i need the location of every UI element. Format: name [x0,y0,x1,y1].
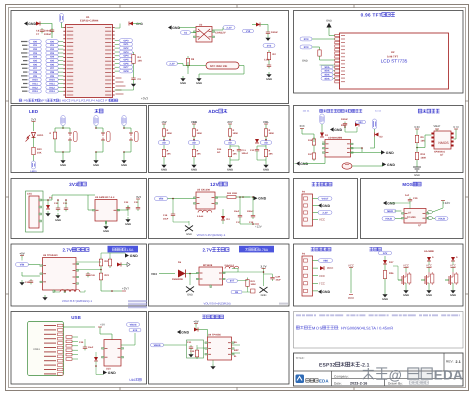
svg-text:: P6(: : P6( [22,99,28,103]
svg-text:-2.1: -2.1 [360,363,369,369]
svg-text:VOLB: VOLB [385,217,392,220]
svg-text:GND: GND [187,294,193,297]
svg-text:EDA: EDA [434,368,463,383]
svg-text:1N5819W: 1N5819W [172,278,184,281]
svg-text:GND: GND [266,78,272,81]
svg-text:GA-NMB: GA-NMB [424,250,434,253]
svg-text::: : [338,325,339,330]
svg-text:10K: 10K [269,153,274,156]
svg-text:0.78A: 0.78A [259,248,269,252]
svg-text:LED1: LED1 [30,170,37,173]
svg-text:GND: GND [180,82,186,85]
svg-text:GND: GND [196,82,202,85]
svg-text:GP8: GP8 [123,70,129,73]
svg-text:10uF: 10uF [276,279,282,282]
svg-text:3.7V: 3.7V [260,264,266,268]
svg-text:ADC: ADC [208,109,219,114]
svg-text:IO8: IO8 [50,71,55,74]
svg-text:10uF: 10uF [234,210,240,213]
svg-text:IO4: IO4 [33,56,38,59]
svg-text:IO1: IO1 [50,44,55,47]
svg-text:3.3V: 3.3V [169,62,175,65]
svg-text:GND: GND [191,169,197,172]
svg-text:R21: R21 [105,274,110,277]
svg-text:2V7: 2V7 [227,120,233,124]
svg-text:IO0: IO0 [50,40,55,43]
svg-text:100nF: 100nF [271,31,278,34]
svg-text:+5V: +5V [19,252,24,256]
svg-text:B-: B- [234,355,237,358]
svg-text:GND: GND [261,294,267,297]
svg-text:10K: 10K [197,153,202,156]
svg-text:GND: GND [181,331,189,335]
svg-text:GND: GND [60,164,66,167]
svg-text:+12V: +12V [255,225,262,229]
svg-text:GND: GND [108,371,116,375]
svg-text:VD3: VD3 [151,272,157,276]
svg-text:GP3: GP3 [123,51,129,54]
svg-text:1.5A: 1.5A [126,248,134,252]
svg-text:GND: GND [326,20,332,23]
svg-text:VBB: VBB [191,120,197,124]
svg-text:10K: 10K [138,59,143,62]
svg-text:AD: AD [228,141,232,144]
svg-text:VOUT: VOUT [322,197,330,200]
svg-text:REV:: REV: [446,360,454,364]
svg-text:IO13: IO13 [32,90,38,93]
svg-text:GP2: GP2 [123,47,129,50]
svg-text:+5V: +5V [161,120,166,124]
svg-text:D17: D17 [389,261,394,264]
svg-text:SDA: SDA [325,70,330,73]
svg-text:VBUS: VBUS [130,323,137,326]
svg-text:SDA: SDA [325,66,330,69]
svg-text:100K: 100K [269,132,275,135]
svg-text:GND: GND [136,22,144,26]
svg-text:@: @ [389,368,402,383]
svg-text:V12: V12 [246,30,251,33]
svg-text:100nF: 100nF [341,118,348,121]
svg-text:MOS: MOS [312,325,323,330]
svg-text:100K: 100K [233,132,239,135]
svg-text:GND: GND [227,169,233,172]
svg-text:2.2uH L3: 2.2uH L3 [225,264,235,267]
svg-text:VB5: VB5 [323,259,328,262]
svg-text:IO1: IO1 [33,44,38,47]
svg-text:MOS: MOS [402,182,413,187]
svg-text:TITLE:: TITLE: [296,356,305,360]
svg-text:3.3V: 3.3V [322,211,328,214]
svg-text:3.3V: 3.3V [226,26,232,29]
svg-text:VOUT/1.25=(R2/R1)+1: VOUT/1.25=(R2/R1)+1 [197,233,226,237]
svg-text:+2V7: +2V7 [122,287,129,291]
svg-text:GND: GND [387,163,395,167]
svg-text:GND: GND [172,26,180,30]
svg-text:IO6: IO6 [50,63,55,66]
svg-text:GND: GND [414,174,420,177]
svg-text:GP7: GP7 [123,66,129,69]
svg-text:SDA: SDA [325,77,330,80]
svg-text:IO5: IO5 [33,60,38,63]
svg-text:VBUS: VBUS [154,344,161,347]
svg-text:GND: GND [125,223,131,226]
svg-text:IO13: IO13 [49,90,55,93]
svg-text:C19: C19 [413,197,418,200]
svg-text:GND: GND [258,197,266,201]
svg-text:VOUT/0.6=(R23/R24): VOUT/0.6=(R23/R24) [204,302,231,306]
svg-text:VOLB: VOLB [438,217,445,220]
svg-text:GND: GND [263,169,269,172]
svg-text:12V: 12V [210,182,220,187]
svg-text:IO8: IO8 [33,71,38,74]
svg-text:10K: 10K [233,153,238,156]
svg-text:GP4: GP4 [123,55,129,58]
svg-text:R10: R10 [37,148,42,151]
svg-text:+5V: +5V [193,320,198,324]
svg-text:3.3V: 3.3V [414,125,420,129]
svg-text:XPW3401: XPW3401 [434,151,446,154]
svg-text:IO7: IO7 [50,67,55,70]
svg-text:GND: GND [28,22,36,26]
svg-text:+3V3: +3V3 [141,96,148,100]
svg-text:IO6: IO6 [33,63,38,66]
svg-text:GND: GND [334,128,342,132]
svg-text:AD: AD [264,141,268,144]
svg-text:USB1: USB1 [33,348,40,351]
svg-text:100nF: 100nF [44,33,52,36]
svg-text:R26: R26 [389,272,394,275]
svg-text:U4 AMS1117-3.3: U4 AMS1117-3.3 [95,196,115,199]
svg-text:GND: GND [130,254,138,258]
svg-text:IO2: IO2 [50,48,55,51]
svg-text:3V3: 3V3 [136,195,141,199]
svg-text:1uF: 1uF [405,194,410,197]
svg-text:CC1: CC1 [264,59,270,62]
svg-text:GND: GND [161,169,167,172]
svg-text:IO7: IO7 [33,67,38,70]
svg-text:IO0: IO0 [33,40,38,43]
svg-text:IO4: IO4 [50,56,55,59]
svg-text:100K: 100K [167,132,173,135]
svg-text:HYG006N04LS1TA / 0.45mR: HYG006N04LS1TA / 0.45mR [341,325,393,330]
svg-text:AD: AD [192,141,196,144]
svg-text:2.7V: 2.7V [202,248,212,253]
svg-text:VIN: VIN [20,263,25,266]
svg-text:VOUT/0.6=(R20/R21)+1: VOUT/0.6=(R20/R21)+1 [62,299,93,303]
svg-text:3.7V: 3.7V [453,125,459,129]
svg-text:IO12: IO12 [49,86,55,89]
svg-text:GP0: GP0 [123,39,129,42]
svg-text:VIN: VIN [159,197,164,200]
svg-text:12V: 12V [383,252,388,255]
svg-text:3V3: 3V3 [304,38,309,41]
svg-text:10K: 10K [421,139,426,142]
svg-text:Date:: Date: [334,381,342,385]
svg-text:22uF: 22uF [341,124,347,127]
svg-text:VBAT: VBAT [433,124,441,128]
svg-text:12V: 12V [358,121,363,124]
svg-text:10K: 10K [167,153,172,156]
svg-text:NMOS: NMOS [438,141,449,145]
svg-text:GND: GND [382,298,388,301]
svg-text:GND: GND [386,151,394,155]
svg-text:10uF: 10uF [88,346,94,349]
svg-text:VCC: VCC [348,264,354,268]
svg-text:)) ADC2 P5,P1,P2,P0,P4 ADC2: )) ADC2 P5,P1,P2,P0,P4 ADC2 PT [59,99,109,103]
svg-text:5V: 5V [49,197,52,200]
svg-text:IO3: IO3 [50,52,55,55]
svg-text:GND: GND [322,290,330,294]
svg-text:U2: U2 [391,51,395,54]
svg-text:IO10: IO10 [49,79,55,82]
svg-text:ESP32-C3RH4: ESP32-C3RH4 [80,20,99,23]
svg-text:GND: GND [426,294,432,297]
svg-text:2.1: 2.1 [456,360,461,364]
svg-text:NC: NC [217,151,221,154]
svg-text:ESP32: ESP32 [319,363,336,369]
svg-text:GP5: GP5 [123,59,129,62]
svg-text:MER: MER [387,210,393,213]
svg-text:GND: GND [322,204,330,208]
svg-text:3V3: 3V3 [133,329,138,332]
svg-text:BAT: BAT [234,349,239,352]
svg-text:GND: GND [121,164,127,167]
svg-text:GND: GND [387,202,395,206]
svg-text:IO3: IO3 [33,52,38,55]
svg-text:IO9: IO9 [50,75,55,78]
svg-text:IO11: IO11 [49,82,55,85]
svg-text:+5V: +5V [100,323,105,327]
svg-text:GND: GND [55,219,61,222]
svg-text:GND: GND [300,162,308,166]
svg-text:IO10: IO10 [32,79,38,82]
svg-text:USB: USB [71,315,81,320]
svg-text:10uF: 10uF [163,217,169,220]
svg-text:MT3608: MT3608 [203,264,213,267]
svg-text:100nF: 100nF [242,152,249,155]
svg-text:GND: GND [450,294,456,297]
svg-text:3V3: 3V3 [267,44,272,47]
svg-text:GND: GND [186,233,192,236]
svg-text:GND: GND [302,60,308,63]
svg-text:100K: 100K [197,132,203,135]
svg-text:GP6: GP6 [123,62,129,65]
svg-text:TC4420: TC4420 [407,216,416,219]
svg-text:VCC: VCC [319,274,325,278]
svg-text:IO12: IO12 [32,86,38,89]
svg-text:IO5: IO5 [50,60,55,63]
svg-text:TCC: TCC [319,281,325,285]
svg-text:3V3: 3V3 [69,182,78,187]
svg-text:SDA: SDA [325,73,330,76]
svg-text:GND: GND [93,164,99,167]
svg-text:U1: U1 [86,16,90,19]
svg-text:U9 TP4056: U9 TP4056 [208,334,221,337]
svg-text:LED1: LED1 [37,134,44,137]
svg-text:OCC: OCC [348,296,354,300]
svg-text:100K: 100K [251,283,257,286]
svg-text:NTC 3950 10K: NTC 3950 10K [210,65,228,68]
svg-text:AD: AD [162,141,166,144]
svg-text:100K: 100K [421,156,427,159]
svg-text:CD4069UBM: CD4069UBM [328,137,342,140]
svg-text:3V3: 3V3 [300,124,305,128]
svg-text:U5 SX1308: U5 SX1308 [197,189,211,192]
svg-text:GND: GND [403,294,409,297]
svg-text:CN1: CN1 [27,193,33,196]
svg-text:U6 TPS5430: U6 TPS5430 [43,254,58,257]
svg-text:VOL: VOL [263,120,269,124]
svg-text:2.2uH: 2.2uH [197,215,204,218]
svg-text:IO2: IO2 [33,48,38,51]
svg-text:LED: LED [29,109,38,114]
svg-text:2.7V: 2.7V [62,248,72,253]
svg-text:FB: FB [235,291,238,294]
svg-text:Company:: Company: [334,374,349,378]
svg-text:VCC: VCC [403,264,409,268]
svg-text:10K: 10K [37,152,42,155]
svg-text:OCC: OCC [327,266,333,270]
svg-text:EDA: EDA [319,378,329,383]
svg-text:)(P7(: )(P7( [40,99,47,103]
svg-text:0.96 TFT: 0.96 TFT [361,13,382,18]
svg-text:U10: U10 [129,378,135,382]
svg-text:C2R: C2R [276,276,281,279]
svg-text:IO11: IO11 [32,82,38,85]
svg-text:R18: R18 [421,153,426,156]
svg-text:+12V: +12V [443,201,450,205]
svg-text:VCC: VCC [319,218,325,222]
svg-text:11 11: 11 11 [375,110,381,113]
svg-text:GND: GND [103,230,109,233]
svg-text:R22 100K: R22 100K [227,192,238,195]
svg-text:GP1: GP1 [123,43,129,46]
svg-text:CON12V: CON12V [215,32,226,35]
svg-text:2V3: 2V3 [31,118,37,122]
svg-text:2V7: 2V7 [230,280,235,283]
svg-text:IO9: IO9 [33,75,38,78]
svg-text:111 11: 111 11 [303,110,311,113]
svg-text:3V3: 3V3 [304,46,309,49]
svg-text:2023-2-16: 2023-2-16 [350,381,367,385]
svg-text:LCD ST7735: LCD ST7735 [381,59,408,64]
